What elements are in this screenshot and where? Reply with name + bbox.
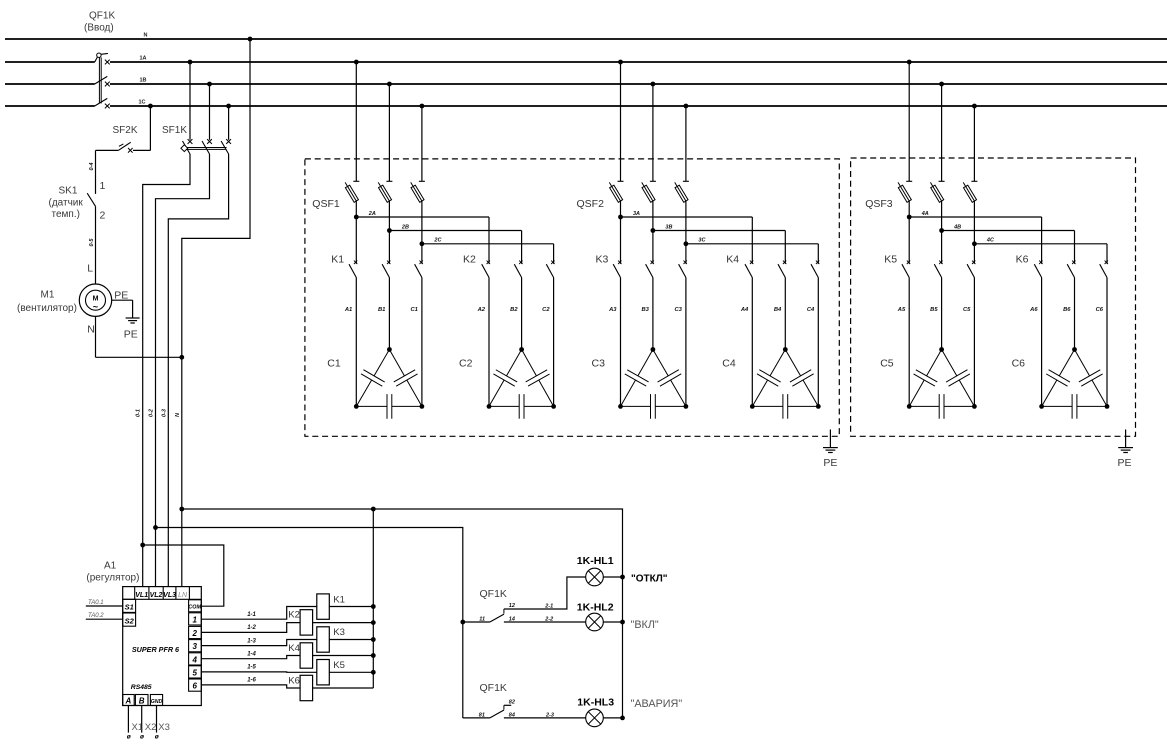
svg-text:A2: A2 bbox=[477, 307, 486, 313]
svg-text:(регулятор): (регулятор) bbox=[86, 573, 139, 584]
svg-text:"ОТКЛ": "ОТКЛ" bbox=[631, 574, 668, 585]
svg-text:1: 1 bbox=[192, 615, 197, 624]
svg-text:K6: K6 bbox=[1016, 254, 1029, 266]
svg-text:14: 14 bbox=[509, 616, 515, 622]
svg-text:1A: 1A bbox=[140, 56, 147, 62]
svg-text:B: B bbox=[139, 696, 145, 705]
svg-text:A6: A6 bbox=[1029, 307, 1038, 313]
svg-text:QF1K: QF1K bbox=[89, 11, 115, 22]
svg-text:2A: 2A bbox=[368, 211, 376, 217]
svg-text:QF1K: QF1K bbox=[480, 682, 507, 694]
svg-text:QSF1: QSF1 bbox=[312, 198, 340, 210]
svg-text:SF1K: SF1K bbox=[162, 125, 187, 136]
svg-text:C1: C1 bbox=[327, 358, 341, 370]
svg-text:2-3: 2-3 bbox=[545, 712, 554, 718]
svg-text:C6: C6 bbox=[1096, 307, 1104, 313]
svg-text:B3: B3 bbox=[641, 307, 649, 313]
svg-text:N: N bbox=[87, 324, 95, 336]
svg-text:2: 2 bbox=[100, 210, 106, 222]
svg-text:C4: C4 bbox=[807, 307, 815, 313]
svg-text:PE: PE bbox=[124, 329, 138, 341]
svg-text:K5: K5 bbox=[884, 254, 897, 266]
svg-text:81: 81 bbox=[479, 712, 485, 718]
svg-text:"ВКЛ": "ВКЛ" bbox=[631, 619, 659, 631]
svg-text:X1: X1 bbox=[132, 722, 144, 733]
svg-text:QSF2: QSF2 bbox=[577, 198, 605, 210]
svg-text:C5: C5 bbox=[963, 307, 971, 313]
svg-text:ø: ø bbox=[155, 734, 159, 741]
svg-text:ø: ø bbox=[127, 734, 131, 741]
svg-text:K3: K3 bbox=[333, 627, 345, 638]
svg-text:3B: 3B bbox=[665, 224, 672, 230]
svg-text:4A: 4A bbox=[921, 211, 929, 217]
svg-text:QF1K: QF1K bbox=[480, 588, 507, 600]
svg-text:A: A bbox=[125, 696, 132, 705]
svg-text:SK1: SK1 bbox=[59, 186, 78, 197]
svg-text:C5: C5 bbox=[880, 358, 894, 370]
svg-text:K1: K1 bbox=[331, 254, 344, 266]
svg-text:B1: B1 bbox=[378, 307, 385, 313]
svg-text:4C: 4C bbox=[986, 238, 995, 244]
svg-text:C6: C6 bbox=[1012, 358, 1026, 370]
svg-text:K1: K1 bbox=[333, 594, 345, 605]
svg-text:COM: COM bbox=[188, 604, 201, 610]
svg-text:B4: B4 bbox=[774, 307, 782, 313]
svg-text:6: 6 bbox=[192, 682, 197, 691]
svg-text:ø: ø bbox=[140, 734, 144, 741]
svg-text:2C: 2C bbox=[433, 238, 442, 244]
svg-text:(вентилятор): (вентилятор) bbox=[17, 303, 77, 314]
svg-text:K2: K2 bbox=[463, 254, 476, 266]
svg-text:SF2K: SF2K bbox=[113, 125, 138, 136]
svg-text:S2: S2 bbox=[125, 616, 135, 625]
svg-text:1K-HL1: 1K-HL1 bbox=[577, 555, 614, 567]
svg-text:TA0.2: TA0.2 bbox=[88, 613, 104, 619]
svg-text:1-3: 1-3 bbox=[247, 638, 256, 644]
svg-text:"АВАРИЯ": "АВАРИЯ" bbox=[631, 698, 683, 710]
svg-text:A5: A5 bbox=[897, 307, 906, 313]
svg-text:TA0.1: TA0.1 bbox=[88, 600, 104, 606]
svg-text:VL2: VL2 bbox=[150, 592, 163, 599]
svg-text:A1: A1 bbox=[344, 307, 352, 313]
svg-text:3A: 3A bbox=[633, 211, 640, 217]
svg-text:1C: 1C bbox=[139, 100, 146, 106]
svg-text:1-5: 1-5 bbox=[247, 665, 256, 671]
svg-text:PE: PE bbox=[823, 457, 837, 469]
svg-text:1-6: 1-6 bbox=[247, 678, 256, 684]
svg-text:X2: X2 bbox=[145, 722, 157, 733]
svg-text:3C: 3C bbox=[698, 238, 706, 244]
svg-text:B2: B2 bbox=[510, 307, 518, 313]
svg-text:SUPER PFR 6: SUPER PFR 6 bbox=[132, 645, 180, 654]
svg-text:X3: X3 bbox=[158, 722, 170, 733]
svg-text:K3: K3 bbox=[596, 254, 609, 266]
svg-text:5: 5 bbox=[192, 668, 197, 677]
svg-text:B6: B6 bbox=[1063, 307, 1071, 313]
svg-text:M1: M1 bbox=[41, 290, 55, 301]
svg-text:K4: K4 bbox=[726, 254, 739, 266]
svg-text:2-2: 2-2 bbox=[544, 616, 553, 622]
svg-text:L: L bbox=[87, 263, 93, 275]
svg-text:C2: C2 bbox=[542, 307, 550, 313]
svg-text:4: 4 bbox=[191, 655, 197, 664]
svg-text:2: 2 bbox=[191, 629, 197, 638]
svg-text:C3: C3 bbox=[674, 307, 682, 313]
svg-text:C1: C1 bbox=[410, 307, 417, 313]
svg-text:S1: S1 bbox=[125, 603, 134, 612]
svg-text:(датчик: (датчик bbox=[49, 198, 84, 209]
svg-text:RS485: RS485 bbox=[131, 684, 152, 691]
svg-text:1K-HL2: 1K-HL2 bbox=[577, 602, 614, 614]
svg-text:K5: K5 bbox=[333, 660, 345, 671]
svg-text:1-4: 1-4 bbox=[247, 652, 256, 658]
svg-text:2-1: 2-1 bbox=[544, 603, 553, 609]
svg-text:12: 12 bbox=[509, 603, 515, 609]
svg-text:2B: 2B bbox=[401, 224, 409, 230]
svg-text:(Ввод): (Ввод) bbox=[84, 23, 114, 34]
svg-text:84: 84 bbox=[509, 712, 515, 718]
svg-text:1-2: 1-2 bbox=[247, 625, 256, 631]
svg-text:N: N bbox=[144, 33, 148, 39]
svg-text:1-1: 1-1 bbox=[247, 612, 256, 618]
svg-text:0-3: 0-3 bbox=[161, 409, 167, 417]
svg-text:K4: K4 bbox=[288, 643, 300, 654]
svg-text:PE: PE bbox=[1118, 457, 1132, 469]
svg-text:B5: B5 bbox=[930, 307, 938, 313]
svg-text:4B: 4B bbox=[953, 224, 961, 230]
svg-text:VL3: VL3 bbox=[163, 592, 176, 599]
svg-text:11: 11 bbox=[479, 616, 485, 622]
svg-text:0-4: 0-4 bbox=[89, 163, 95, 171]
svg-text:QSF3: QSF3 bbox=[865, 198, 893, 210]
svg-text:1: 1 bbox=[100, 180, 106, 192]
svg-text:GND: GND bbox=[151, 699, 163, 705]
svg-text:C4: C4 bbox=[722, 358, 736, 370]
svg-text:C3: C3 bbox=[592, 358, 606, 370]
svg-text:1B: 1B bbox=[140, 78, 147, 84]
svg-text:0-5: 0-5 bbox=[89, 238, 95, 247]
svg-text:K2: K2 bbox=[288, 610, 300, 621]
svg-text:1K-HL3: 1K-HL3 bbox=[577, 697, 614, 709]
svg-text:A3: A3 bbox=[608, 307, 617, 313]
svg-text:LN: LN bbox=[178, 592, 188, 599]
svg-text:~: ~ bbox=[93, 302, 98, 312]
svg-text:A4: A4 bbox=[740, 307, 749, 313]
svg-text:82: 82 bbox=[509, 700, 515, 706]
svg-text:VL1: VL1 bbox=[135, 592, 148, 599]
svg-text:PE: PE bbox=[114, 289, 128, 301]
svg-text:темп.): темп.) bbox=[52, 209, 80, 220]
svg-text:0-2: 0-2 bbox=[149, 409, 155, 417]
svg-text:K6: K6 bbox=[288, 675, 300, 686]
svg-text:A1: A1 bbox=[104, 561, 117, 572]
svg-text:C2: C2 bbox=[459, 358, 473, 370]
svg-text:3: 3 bbox=[192, 642, 197, 651]
svg-text:0-1: 0-1 bbox=[136, 409, 142, 417]
